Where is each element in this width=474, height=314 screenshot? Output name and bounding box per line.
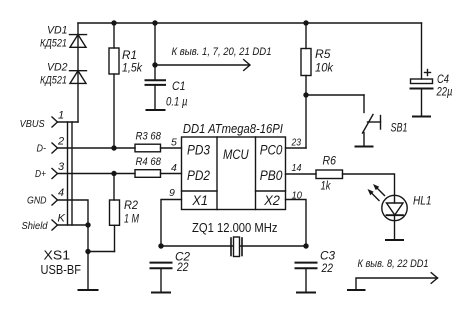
svg-text:10k: 10k bbox=[315, 63, 334, 75]
connector XS1 pin 2 bbox=[52, 143, 58, 153]
svg-text:0.1 µ: 0.1 µ bbox=[166, 97, 188, 109]
svg-text:DD1 ATmega8-16PI: DD1 ATmega8-16PI bbox=[183, 121, 283, 136]
connector XS1 pin 3 bbox=[52, 169, 58, 179]
svg-text:D+: D+ bbox=[35, 168, 46, 180]
svg-text:X2: X2 bbox=[263, 193, 280, 208]
wire ground net XS1 bbox=[87, 225, 89, 290]
capacitor C1 bbox=[146, 80, 166, 85]
junction GND/Shield bbox=[85, 222, 90, 227]
svg-text:PB0: PB0 bbox=[260, 168, 283, 183]
junction R2 return bbox=[85, 249, 90, 254]
connector XS1 cable lines bbox=[68, 122, 73, 225]
svg-text:R6: R6 bbox=[323, 156, 337, 168]
svg-text:USB-BF: USB-BF bbox=[41, 263, 82, 277]
capacitor C4 bbox=[411, 23, 433, 117]
junction C1 top bbox=[152, 20, 157, 25]
svg-text:XS1: XS1 bbox=[44, 249, 71, 263]
svg-text:R3 68: R3 68 bbox=[136, 131, 162, 143]
wire R4 to PD2 bbox=[161, 173, 182, 175]
svg-text:22: 22 bbox=[321, 263, 334, 275]
junction crystal right bbox=[303, 243, 308, 248]
wire top rail bbox=[78, 22, 422, 24]
svg-text:Shield: Shield bbox=[22, 220, 49, 232]
ground C3 bbox=[297, 268, 315, 292]
ground SB1 bbox=[356, 146, 373, 148]
capacitor C2 bbox=[151, 263, 172, 269]
crystal ZQ1 bbox=[231, 237, 242, 257]
svg-text:23: 23 bbox=[291, 137, 302, 149]
svg-text:22: 22 bbox=[176, 262, 189, 274]
svg-text:22µ: 22µ bbox=[436, 87, 453, 99]
svg-text:4: 4 bbox=[171, 162, 177, 174]
resistor R4 bbox=[135, 170, 161, 178]
junction R5 bottom / SB1 branch bbox=[303, 92, 308, 97]
wire R6 to HL1 bbox=[343, 174, 395, 203]
svg-text:MCU: MCU bbox=[223, 147, 249, 162]
svg-text:C4: C4 bbox=[437, 74, 449, 86]
node arrow to pins 1,7,20,21 DD1 bbox=[155, 60, 250, 71]
capacitor C3 bbox=[296, 263, 317, 269]
junction R1 bottom on D- bbox=[111, 145, 116, 150]
diode VD2 bbox=[70, 71, 87, 84]
ground HL1 bbox=[386, 239, 403, 241]
node arrow to pins 8,22 DD1 bbox=[356, 273, 438, 290]
svg-text:КД521: КД521 bbox=[40, 75, 67, 87]
svg-text:VD2: VD2 bbox=[47, 62, 68, 74]
svg-text:1: 1 bbox=[58, 110, 64, 122]
svg-text:1k: 1k bbox=[321, 181, 332, 193]
connector XS1 pin K bbox=[52, 220, 58, 230]
ic DD1 outline bbox=[182, 137, 286, 210]
label + polarity bbox=[425, 70, 431, 76]
svg-text:5: 5 bbox=[171, 137, 177, 149]
junction R1 top bbox=[111, 20, 116, 25]
wire R3 to PD3 bbox=[161, 147, 182, 149]
diode VD1 bbox=[70, 35, 87, 48]
ground C2 bbox=[152, 268, 170, 292]
svg-text:C1: C1 bbox=[172, 81, 186, 93]
svg-text:C3: C3 bbox=[320, 251, 336, 263]
wire D- bbox=[58, 147, 136, 149]
ground C4 bbox=[413, 116, 430, 118]
svg-text:SB1: SB1 bbox=[391, 123, 408, 135]
wire Shield bbox=[58, 224, 89, 226]
ic DD1 divider left bbox=[216, 137, 218, 210]
wire GND bbox=[58, 200, 89, 225]
svg-text:PD2: PD2 bbox=[187, 168, 210, 183]
wire X1 to crystal bbox=[161, 200, 182, 247]
svg-text:R4 68: R4 68 bbox=[136, 156, 162, 168]
wire crystal net bbox=[161, 245, 306, 247]
svg-text:VD1: VD1 bbox=[47, 25, 68, 37]
svg-text:КД521: КД521 bbox=[40, 38, 67, 50]
led HL1 light arrows bbox=[368, 184, 385, 201]
svg-text:R1: R1 bbox=[122, 50, 137, 62]
ic DD1 X2 cell line bbox=[256, 190, 286, 192]
wire X2 to crystal bbox=[286, 200, 307, 247]
ic DD1 X1 cell line bbox=[182, 190, 218, 192]
svg-text:1 M: 1 M bbox=[124, 214, 139, 226]
wire SB1 branch bbox=[306, 95, 364, 113]
svg-text:PD3: PD3 bbox=[187, 143, 210, 158]
svg-text:D-: D- bbox=[37, 143, 47, 155]
svg-text:VBUS: VBUS bbox=[20, 118, 45, 130]
resistor R2 bbox=[88, 174, 120, 252]
svg-text:2: 2 bbox=[57, 136, 64, 148]
svg-text:К выв. 1, 7, 20, 21 DD1: К выв. 1, 7, 20, 21 DD1 bbox=[172, 46, 272, 58]
wire D+ bbox=[58, 173, 136, 175]
svg-text:R2: R2 bbox=[124, 200, 139, 212]
svg-text:X1: X1 bbox=[191, 193, 208, 208]
resistor R6 bbox=[286, 170, 343, 179]
svg-text:ZQ1 12.000 MHz: ZQ1 12.000 MHz bbox=[192, 221, 278, 235]
svg-text:1,5k: 1,5k bbox=[122, 63, 143, 75]
svg-text:14: 14 bbox=[292, 162, 302, 174]
svg-text:PC0: PC0 bbox=[260, 143, 283, 158]
resistor R1 bbox=[109, 23, 119, 148]
ground arrow net bbox=[348, 289, 365, 291]
junction crystal left bbox=[158, 243, 163, 248]
wire VBUS bbox=[58, 121, 79, 123]
svg-text:4: 4 bbox=[58, 187, 64, 199]
ground C1 bbox=[147, 85, 165, 110]
svg-text:3: 3 bbox=[58, 161, 65, 173]
svg-text:К выв. 8, 22 DD1: К выв. 8, 22 DD1 bbox=[358, 258, 429, 270]
svg-text:GND: GND bbox=[27, 195, 47, 207]
ground XS1 bbox=[79, 289, 98, 291]
junction R5 top bbox=[303, 20, 308, 25]
connector XS1 pin 1 bbox=[52, 117, 58, 127]
wire diode chain vertical bbox=[77, 23, 79, 122]
svg-text:R5: R5 bbox=[315, 49, 331, 61]
junction D+ / R2 bbox=[111, 171, 116, 176]
wire PC0 to R5 bbox=[286, 147, 307, 149]
pushbutton SB1 bbox=[363, 115, 381, 147]
wire C1 branch bbox=[154, 23, 156, 80]
svg-text:9: 9 bbox=[169, 187, 175, 199]
resistor R5 bbox=[301, 23, 311, 148]
resistor R3 bbox=[135, 144, 161, 152]
svg-text:HL1: HL1 bbox=[413, 196, 432, 208]
junction C1 arrow bbox=[152, 62, 157, 67]
ic DD1 divider right bbox=[255, 137, 257, 210]
led HL1 bbox=[382, 195, 407, 240]
svg-text:K: K bbox=[58, 213, 66, 225]
connector XS1 pin 4 bbox=[52, 195, 58, 205]
